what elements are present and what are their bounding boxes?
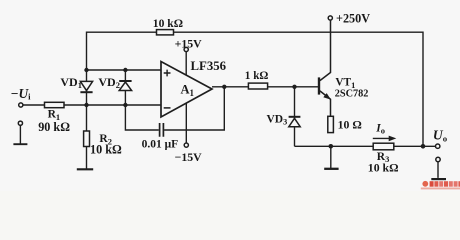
diode VD2 (cathode up) <box>119 80 131 82</box>
ground bar below lower-right terminal <box>431 178 446 180</box>
svg-text:10 kΩ: 10 kΩ <box>90 142 122 156</box>
transistor emitter arrowhead <box>323 93 331 100</box>
wire: non-inverting input line (diode tops) <box>87 69 162 71</box>
terminal +15V <box>184 47 188 51</box>
wire: VD3 vertical branch <box>294 87 296 147</box>
terminal Uo upper <box>436 144 440 148</box>
svg-text:2SC782: 2SC782 <box>335 88 369 99</box>
node: VD2 bottom / capacitor tap <box>123 103 127 107</box>
resistor R1 90 kOhm box <box>45 102 65 107</box>
ground bar below emitter node <box>324 168 338 170</box>
diode VD1 (cathode down) <box>80 81 92 90</box>
wire: op-amp output to transistor base <box>212 86 318 88</box>
wire: compensation capacitor branch from VD2 node to output node <box>125 87 224 130</box>
wire: feedback loop top rail (node A to load node) <box>87 32 424 146</box>
resistor R2 10 kOhm box <box>84 131 90 147</box>
svg-text:−Ui: −Ui <box>11 86 31 102</box>
svg-text:10 kΩ: 10 kΩ <box>368 160 399 174</box>
svg-text:10 Ω: 10 Ω <box>338 118 362 132</box>
svg-text:+15V: +15V <box>175 37 203 51</box>
node: emitter / load line <box>329 144 334 149</box>
wire: VD1 vertical <box>86 70 88 105</box>
op-amp minus input sign <box>164 107 171 109</box>
node: VD2 top <box>123 68 127 72</box>
svg-text:90 kΩ: 90 kΩ <box>38 120 70 134</box>
node: inverting input / R1 / R2 <box>84 103 88 107</box>
wire: emitter ground stub <box>330 146 332 168</box>
wire: VD2 vertical <box>124 70 126 105</box>
resistor R3 10 kOhm box (load) <box>373 143 394 150</box>
svg-text:1 kΩ: 1 kΩ <box>245 70 269 82</box>
svg-text:−15V: −15V <box>175 150 203 164</box>
resistor 1 kOhm box (base) <box>248 83 267 89</box>
diode VD3 (cathode up) <box>289 116 301 118</box>
transistor Q1 VT1 base bar <box>318 77 320 94</box>
svg-text:LF356: LF356 <box>191 59 227 73</box>
ground bar below lower-left terminal <box>13 143 27 145</box>
node: VD3 top / base line <box>292 85 296 89</box>
wire: emitter/load line to output terminal <box>295 145 436 147</box>
wire: R2 branch to ground <box>86 105 88 169</box>
wire: -15V supply stem <box>185 103 187 143</box>
svg-text:0.01 μF: 0.01 μF <box>142 139 179 151</box>
capacitor C 0.01uF plates <box>160 123 164 137</box>
transistor emitter lead <box>320 91 331 116</box>
op-amp U1 LF356 triangle <box>161 62 212 118</box>
resistor R (feedback) 10 kOhm box <box>157 30 174 35</box>
node: diode top line / feedback <box>84 68 88 72</box>
svg-text:10 kΩ: 10 kΩ <box>153 17 183 30</box>
op-amp plus input sign <box>164 70 171 77</box>
transistor collector lead <box>320 20 331 80</box>
node: op-amp output <box>222 85 226 89</box>
terminal -Ui upper <box>19 103 23 107</box>
terminal +250V <box>328 16 332 20</box>
svg-text:+250V: +250V <box>336 11 370 25</box>
wire: lower input terminal stem <box>19 125 21 143</box>
wire: +15V supply stem <box>185 52 187 75</box>
ground bar below R2 <box>77 168 93 170</box>
terminal lower-right post <box>436 157 440 161</box>
red watermark bottom right <box>421 181 460 189</box>
wire: input line from -Ui terminal to op-amp inverting input <box>23 104 161 106</box>
terminal -15V <box>184 143 188 147</box>
node: load / feedback / Uo <box>421 144 426 149</box>
wire: lower output terminal stem <box>437 162 439 178</box>
terminal lower-left post <box>18 121 22 125</box>
current arrow Io <box>373 137 390 139</box>
resistor 10 Ohm box (emitter) <box>328 116 334 132</box>
